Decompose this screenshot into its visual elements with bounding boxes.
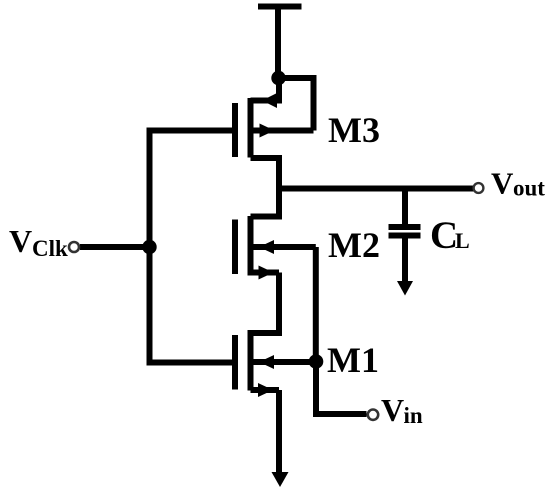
M3 gate plate bbox=[232, 103, 238, 157]
terminal Vout (open circle) bbox=[474, 183, 484, 193]
M2 source lead bbox=[251, 270, 280, 276]
CL top plate bbox=[389, 224, 421, 230]
arrow on M3 drain lead (points toward channel) bbox=[262, 93, 277, 108]
wire CL to ground arrow bbox=[402, 238, 408, 282]
svg-text:V: V bbox=[491, 166, 514, 201]
wire output node: M3 source to VOut terminal bbox=[276, 186, 474, 192]
svg-text:C: C bbox=[430, 214, 458, 257]
M1 source lead bbox=[251, 387, 280, 393]
M1 channel bar bbox=[248, 330, 254, 391]
M2 bulk lead bbox=[251, 244, 316, 250]
ground arrow below M1 bbox=[272, 472, 289, 487]
M3 source lead bbox=[251, 158, 280, 189]
M2 channel bar bbox=[248, 216, 254, 276]
node C junction dot (M1 bulk / Vin) bbox=[309, 354, 324, 369]
node B junction dot (VClk) bbox=[142, 240, 156, 254]
svg-text:out: out bbox=[513, 176, 545, 201]
M2 bulk arrow (points toward channel) bbox=[259, 240, 274, 254]
svg-text:M2: M2 bbox=[328, 225, 380, 265]
svg-text:V: V bbox=[381, 392, 404, 428]
wire node C down to Vin terminal bbox=[316, 362, 367, 415]
M3 bulk arrow (points away from channel) bbox=[260, 124, 275, 138]
M1 bulk arrow (points toward channel) bbox=[259, 355, 274, 369]
svg-text:M3: M3 bbox=[328, 110, 380, 150]
M3 bulk lead bbox=[251, 128, 314, 134]
wire output node down to capacitor CL bbox=[402, 189, 408, 225]
wire M1 source down to ground arrow bbox=[276, 390, 282, 473]
wire VClk terminal to node B bbox=[80, 244, 150, 250]
svg-text:Clk: Clk bbox=[32, 236, 68, 261]
node A junction dot (M3 drain) bbox=[271, 71, 285, 85]
wire gate rail: M3 gate to VClk node B to M1 gate bbox=[150, 131, 236, 363]
transistor M3 bbox=[235, 98, 314, 189]
M1 gate plate bbox=[232, 335, 238, 390]
transistor M2 bbox=[235, 216, 316, 280]
svg-text:L: L bbox=[455, 228, 470, 253]
svg-text:in: in bbox=[404, 403, 423, 428]
wire VDD bar down to node A bbox=[275, 7, 281, 79]
wire M2 drain up to output node bbox=[251, 186, 280, 217]
M3 channel bar bbox=[248, 98, 254, 158]
capacitor CL bbox=[389, 227, 421, 236]
M2 source arrow (points away from channel) bbox=[259, 266, 274, 280]
M2 gate plate bbox=[232, 220, 238, 275]
wire M3 drain lead up to node A bbox=[251, 78, 280, 101]
ground arrow below CL bbox=[397, 281, 413, 296]
terminal VClk (open circle) bbox=[69, 242, 79, 252]
svg-text:V: V bbox=[9, 223, 32, 259]
wire M2 source to M1 drain bbox=[251, 273, 280, 334]
M1 source arrow (points away from channel) bbox=[258, 383, 273, 397]
M1 bulk lead bbox=[251, 359, 317, 365]
transistor M1 bbox=[235, 330, 316, 397]
terminal Vin (open circle) bbox=[368, 410, 378, 420]
svg-text:M1: M1 bbox=[327, 340, 379, 380]
wire M2 bulk down to node C bbox=[313, 247, 319, 362]
VDD supply bar bbox=[258, 4, 302, 10]
CL bottom plate bbox=[389, 233, 421, 239]
wire M3 diode loop: node A to M3 bulk bbox=[279, 78, 314, 131]
